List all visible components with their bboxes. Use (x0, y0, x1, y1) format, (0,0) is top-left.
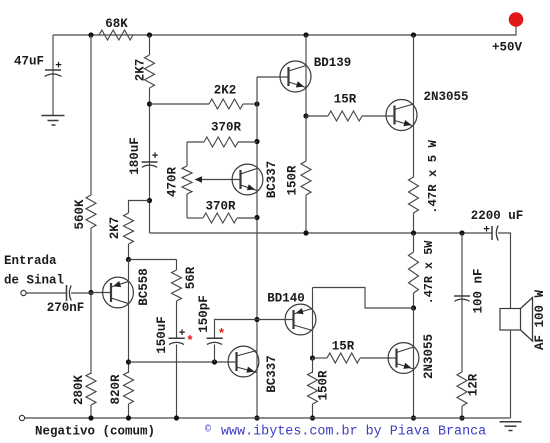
transistor BD139 driver (280, 61, 311, 92)
resistor 2K7 lower (124, 213, 134, 244)
speaker AP 100W box (500, 309, 521, 331)
wire 370R top right lead (238, 141, 257, 143)
label BC558 (137, 268, 151, 306)
wire 2K7 to node and down through 180uF to mid rail (149, 88, 151, 233)
resistor 150R upper (301, 161, 311, 195)
resistor 370R bottom (203, 213, 237, 223)
label Negativo (comum) (35, 425, 155, 439)
svg-text:2N3055: 2N3055 (422, 334, 436, 379)
wire 150pF top to BD140 base node (215, 320, 258, 339)
resistor 12R (457, 372, 467, 406)
wire 370R bottom right lead (237, 217, 257, 219)
wire BD140 emitter staircase to x413 (313, 288, 414, 309)
wire BD139 collector-emitter bus x306 (305, 35, 307, 116)
resistor 2K2 (209, 99, 243, 109)
polarity + of 150uF (179, 328, 186, 340)
wire mid output rail y233 (150, 232, 493, 234)
svg-text:.47R x 5W: .47R x 5W (422, 240, 436, 305)
transistor BD140 driver (285, 304, 316, 335)
node 12R bottom (459, 415, 464, 420)
marker * of 150uF (186, 334, 194, 349)
svg-text:BC337: BC337 (265, 161, 279, 199)
input ground terminal (19, 415, 24, 420)
wire column x149 rail to 2K7 (149, 35, 151, 55)
svg-text:+: + (483, 225, 490, 237)
label 270nF (47, 301, 85, 315)
svg-text:+: + (152, 151, 159, 163)
label 2N3055 upper (423, 90, 468, 104)
transistor 2N3055 upper output (386, 100, 417, 131)
capacitor 2200uF plates (492, 226, 498, 241)
wire 56R to 150uF (176, 301, 178, 338)
wire jog second 2K7 top to x149 node (129, 201, 150, 214)
capacitor 150uF plates (169, 338, 185, 344)
svg-text:BC337: BC337 (265, 355, 279, 393)
wire 2K2 to bus x257 (243, 103, 257, 105)
svg-text:*: * (186, 334, 194, 349)
trimpot 470R body (182, 166, 192, 194)
label 370R top (211, 121, 242, 135)
svg-text:Entrada: Entrada (4, 254, 57, 268)
label .47R x 5W lower (422, 240, 436, 305)
svg-text:270nF: 270nF (47, 301, 85, 315)
node mid rail x306 (303, 230, 308, 235)
svg-text:+: + (179, 328, 186, 340)
resistor .47R lower (409, 252, 419, 293)
resistor 560K (86, 195, 96, 228)
label 2K7 lower (108, 217, 122, 240)
node bias top y141 (254, 139, 259, 144)
capacitor 270nF plates (67, 285, 72, 301)
node top rail 2N3055 collector (411, 32, 416, 37)
label 370R bottom (205, 200, 236, 214)
speaker cone (521, 298, 533, 342)
wire 12R to bottom rail (461, 406, 463, 418)
wire vertical bus x257 BD139 base to bottom rail (256, 77, 258, 418)
wire node to 150R lower (312, 358, 314, 373)
resistor 150R lower (308, 372, 318, 404)
wire BD139 base lead (257, 76, 289, 78)
svg-text:2K7: 2K7 (108, 217, 122, 240)
svg-text:2K2: 2K2 (214, 84, 237, 98)
svg-text:2K7: 2K7 (134, 59, 148, 82)
svg-text:100 nF: 100 nF (472, 268, 486, 313)
node bias bottom y217 (254, 215, 259, 220)
polarity + of 180uF (152, 151, 159, 163)
svg-text:15R: 15R (332, 340, 355, 354)
node bus bottom rail (254, 415, 259, 420)
wire .47R lower from mid rail (413, 233, 415, 252)
svg-text:de Sinal: de Sinal (4, 274, 64, 288)
svg-text:BD140: BD140 (267, 292, 305, 306)
wire trimpot left branch upper (186, 142, 188, 166)
wire 56R top stub (176, 260, 178, 271)
wire 15R to 2N3055 base (362, 115, 395, 117)
wire 470R wiper to BC337 base (197, 179, 241, 181)
node bottom rail x91 (88, 415, 93, 420)
label BD139 (314, 56, 352, 70)
svg-text:12R: 12R (467, 373, 481, 396)
svg-text:470R: 470R (166, 167, 180, 198)
transistor 2N3055 lower output (388, 343, 419, 374)
label 150R lower (317, 370, 331, 401)
wire bias column x91 upper (90, 35, 92, 195)
wire 560K to input node (90, 228, 92, 293)
transistor BC558 input (103, 277, 134, 308)
svg-text:www.ibytes.com.br by Piava Bra: www.ibytes.com.br by Piava Branca (221, 425, 486, 440)
resistor 2K7 upper (145, 55, 155, 88)
wire BD140 base lead (257, 319, 294, 321)
resistor 820R (124, 372, 134, 404)
svg-text:370R: 370R (205, 200, 236, 214)
svg-text:180uF: 180uF (128, 137, 142, 175)
wire speaker to bottom rail (510, 330, 512, 418)
svg-text:560K: 560K (73, 199, 87, 230)
label BD140 (267, 292, 305, 306)
resistor .47R upper (409, 177, 419, 213)
label 47uF (14, 55, 44, 69)
wire 150R to mid rail (305, 195, 307, 233)
svg-text:BD139: BD139 (314, 56, 352, 70)
label 2200 uF (471, 209, 524, 223)
svg-text:2N3055: 2N3055 (423, 90, 468, 104)
wire 2N3055 collector to rail and emitter down (413, 35, 415, 177)
label 2N3055 lower (422, 334, 436, 379)
wire top +50V rail (53, 25, 516, 35)
svg-text:56R: 56R (184, 266, 198, 289)
label +50V (492, 41, 523, 55)
label BC337 lower (265, 355, 279, 393)
wire BD140 bus x312 (312, 288, 314, 359)
svg-text:©: © (205, 424, 211, 436)
ground symbol bottom right (500, 422, 522, 431)
wire 370R bottom left lead (187, 217, 203, 219)
power terminal +50V red dot (509, 12, 524, 27)
node BC558 emitter-feedback y361 (126, 359, 131, 364)
svg-text:2200 uF: 2200 uF (471, 209, 524, 223)
wire 150R lower to bottom rail (312, 404, 314, 418)
svg-text:150uF: 150uF (155, 316, 169, 354)
label 15R upper (334, 93, 357, 107)
capacitor 180uF plates (142, 162, 158, 167)
wire 370R top left lead (187, 141, 204, 143)
wire left column from rail to 47uF (52, 35, 54, 115)
wire bottom rail Negativo (25, 417, 511, 419)
wire base node to BC558 (91, 292, 112, 294)
node BC558 collector y259 (126, 257, 131, 262)
wire input to 270nF (26, 292, 67, 294)
wiper arrowhead (195, 176, 203, 182)
label 15R lower (332, 340, 355, 354)
node bottom rail x128 (126, 415, 131, 420)
wire trimpot left branch lower (186, 194, 188, 218)
wire 2N3055 lower collector-emitter bus (413, 308, 415, 418)
resistor 280K (86, 373, 96, 405)
wire 2200uF to speaker column (498, 233, 511, 309)
svg-text:.47R x 5 W: .47R x 5 W (426, 139, 440, 213)
transistor BC337 upper (bias) (232, 164, 263, 195)
wire .47R to mid rail (413, 213, 415, 233)
label 280K (72, 375, 86, 406)
svg-text:68K: 68K (105, 17, 128, 31)
node 2N3055 emitter bottom rail (411, 415, 416, 420)
svg-text:150pF: 150pF (197, 295, 211, 333)
svg-text:Negativo (comum): Negativo (comum) (35, 425, 155, 439)
node top rail x150 (147, 32, 152, 37)
svg-text:150R: 150R (317, 370, 331, 401)
wire 270nF to base node (71, 292, 91, 294)
label 68K (105, 17, 128, 31)
input terminal (21, 290, 26, 295)
label 56R (184, 266, 198, 289)
label 820R (109, 374, 123, 405)
label Entrada de Sinal (4, 254, 64, 288)
wire 150pF bottom stub (214, 345, 216, 363)
wire 280K to bottom rail (90, 405, 92, 418)
label BC337 upper (265, 161, 279, 199)
wire collector node to 56R (129, 259, 177, 261)
transistor BC337 lower (228, 346, 259, 377)
label .47R x 5 W upper (426, 139, 440, 213)
resistor 15R lower (327, 353, 360, 363)
label 150uF (155, 316, 169, 354)
wire emitter node to 15R (306, 115, 328, 117)
svg-text:820R: 820R (109, 374, 123, 405)
wire 820R to bottom rail (128, 404, 130, 418)
node input base x91 (88, 290, 93, 295)
node x149 y104 (147, 101, 152, 106)
node top rail x91 (88, 32, 93, 37)
wire emitter node to 150R (305, 116, 307, 161)
label 2K2 (214, 84, 237, 98)
label 100 nF (472, 268, 486, 313)
wire 15R lower to 2N3055 base (360, 357, 397, 359)
polarity + of 2200uF (483, 225, 490, 237)
node BD140 collector y358 (310, 355, 315, 360)
svg-text:370R: 370R (211, 121, 242, 135)
node 150pF bottom y361 (212, 359, 217, 364)
label 560K (73, 199, 87, 230)
node mid rail x462 (459, 230, 464, 235)
svg-text:AF 100 W: AF 100 W (533, 289, 547, 350)
wire 150uF bottom to rail crossing feedback line (176, 345, 178, 419)
resistor 15R upper (328, 111, 362, 121)
label copyright www.ibytes.com.br (205, 424, 486, 440)
wire input node to 280K (90, 293, 92, 375)
label 470R (166, 167, 180, 198)
node BD140 base y319 (254, 317, 259, 322)
node x149 y200 second 2K7 tap (147, 198, 152, 203)
marker * of 150pF (218, 327, 226, 342)
wire .47R lower to node (413, 293, 415, 308)
wire 2K2 from node to resistor (150, 103, 210, 105)
svg-text:*: * (218, 327, 226, 342)
resistor 370R top (204, 137, 238, 147)
label 12R (467, 373, 481, 396)
node 2K2 right (254, 101, 259, 106)
wire feedback line y361 to BC337 base (129, 361, 237, 363)
capacitor 150pF plates (207, 338, 223, 344)
capacitor 100nF plates (454, 296, 470, 301)
svg-text:+: + (55, 61, 62, 73)
capacitor C 47uF plates (45, 70, 62, 77)
label 150pF (197, 295, 211, 333)
label AF 100 W (533, 289, 547, 350)
node top rail BD139 collector (303, 32, 308, 37)
node bottom rail x176 (174, 415, 179, 420)
label 150R upper (286, 165, 300, 196)
label 2K7 upper (134, 59, 148, 82)
polarity + of 47uF (55, 61, 62, 73)
wire BC558 bus x128 collector node to feedback node (128, 260, 130, 374)
resistor 56R (172, 270, 182, 301)
wire 2K7 lower to collector node (128, 244, 130, 260)
svg-text:15R: 15R (334, 93, 357, 107)
svg-text:+50V: +50V (492, 41, 523, 55)
node BD139 emitter y116 (303, 113, 308, 118)
svg-text:47uF: 47uF (14, 55, 44, 69)
wire zobel column x462 (461, 233, 463, 372)
resistor 68K on top rail (99, 30, 133, 40)
ground under 47uF (42, 116, 65, 126)
svg-text:BC558: BC558 (137, 268, 151, 306)
wire collector node to 15R lower (313, 357, 328, 359)
node 150R bottom rail (310, 415, 315, 420)
svg-text:280K: 280K (72, 375, 86, 406)
node x413 y308 (411, 305, 416, 310)
svg-text:150R: 150R (286, 165, 300, 196)
label 180uF (128, 137, 142, 175)
node mid rail x413 (411, 230, 416, 235)
